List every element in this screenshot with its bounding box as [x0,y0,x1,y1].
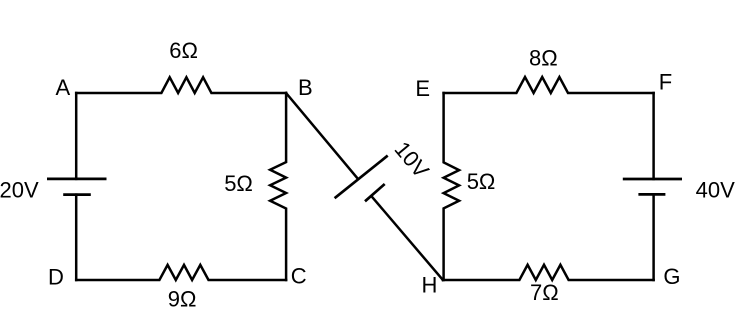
svg-text:8Ω: 8Ω [529,46,558,71]
svg-text:6Ω: 6Ω [169,38,198,63]
svg-text:E: E [415,76,430,101]
svg-text:B: B [298,75,313,100]
svg-text:20V: 20V [0,178,39,203]
svg-text:G: G [663,264,680,289]
svg-text:F: F [659,70,672,95]
svg-text:5Ω: 5Ω [224,171,253,196]
svg-text:H: H [422,273,438,298]
svg-text:40V: 40V [696,178,735,203]
svg-text:C: C [291,263,307,288]
svg-text:5Ω: 5Ω [467,169,496,194]
svg-text:9Ω: 9Ω [168,287,197,312]
svg-text:7Ω: 7Ω [530,280,559,305]
svg-text:A: A [56,75,71,100]
svg-text:D: D [48,265,64,290]
